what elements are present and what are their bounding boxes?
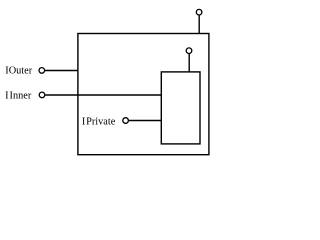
interface circle IOuter xyxy=(39,68,45,74)
interface circle IInner xyxy=(39,92,45,98)
wire: IOuter to outer box left edge xyxy=(45,70,78,72)
svg-text:IInner: IInner xyxy=(5,91,32,102)
interface circle: top of inner box xyxy=(186,48,192,54)
inner component box xyxy=(161,72,200,144)
svg-text:IOuter: IOuter xyxy=(5,66,32,77)
wire: top interface stem of inner box xyxy=(188,54,190,72)
wire: top interface stem of outer box xyxy=(198,16,200,34)
svg-text:IPrivate: IPrivate xyxy=(82,116,116,127)
outer component box xyxy=(78,34,209,155)
interface circle: top of outer box xyxy=(196,9,202,15)
wire: IPrivate to inner box left edge xyxy=(129,120,162,122)
interface circle IPrivate xyxy=(123,118,129,124)
wire: IInner to inner box left edge xyxy=(45,94,161,96)
